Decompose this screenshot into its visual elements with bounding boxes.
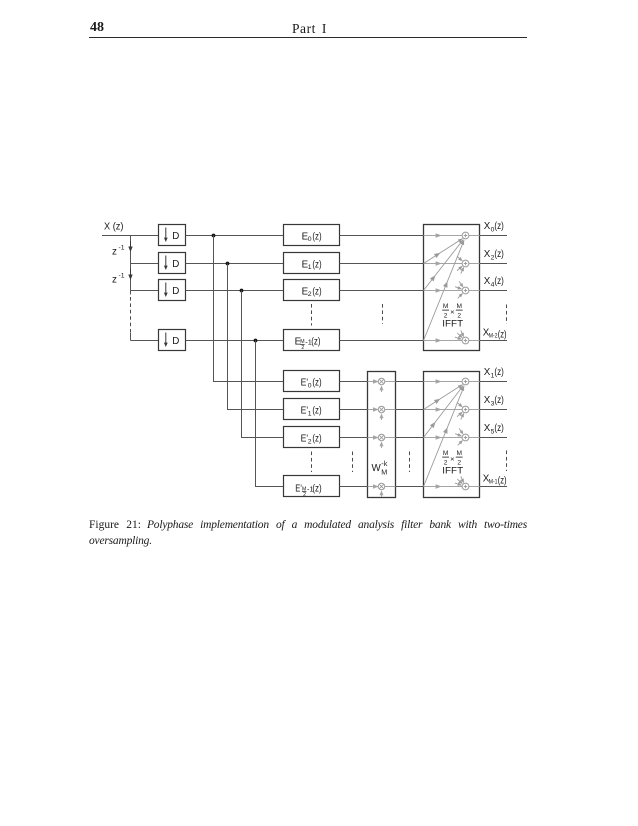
wire output X5 <box>480 437 508 439</box>
U2 IFFT label <box>442 466 463 476</box>
dashed continuation between E2 and EM21 <box>311 304 313 326</box>
U1 internal row line 1 <box>424 233 480 238</box>
W coefficient label WM-k <box>372 459 388 476</box>
node junction tap4 <box>254 339 258 343</box>
svg-text:W: W <box>372 463 382 474</box>
dashed continuation wires E' to W <box>352 452 354 473</box>
filter E'2 <box>284 427 340 448</box>
node junction tap3 <box>240 289 244 293</box>
svg-text:(z): (z) <box>498 475 507 486</box>
svg-text:(z): (z) <box>312 231 321 242</box>
svg-text:(z): (z) <box>311 336 320 347</box>
svg-text:X (z): X (z) <box>104 221 124 232</box>
wire filter E' row2 to W bank <box>340 409 368 411</box>
svg-text:×: × <box>450 455 454 464</box>
wire downsampler D4 to filter <box>186 340 284 342</box>
wire filter E' row1 to W bank <box>340 381 368 383</box>
svg-text:(z): (z) <box>494 395 503 406</box>
U1 internal row line 4 <box>424 338 480 343</box>
svg-text:(z): (z) <box>494 221 503 232</box>
wire filter E' row4 to W bank <box>340 486 368 488</box>
wire tap2 to lower filter <box>228 264 284 410</box>
svg-text:-1: -1 <box>119 272 125 279</box>
svg-text:2: 2 <box>308 438 312 445</box>
svg-text:IFFT: IFFT <box>442 319 463 329</box>
node output label XM-1(z) <box>483 473 507 486</box>
svg-text:D: D <box>172 259 179 270</box>
wire output X1 <box>480 381 508 383</box>
node junction tap2 <box>226 262 230 266</box>
multiplier row2 internal wires <box>368 407 396 420</box>
svg-text:D: D <box>172 336 179 347</box>
svg-text:1: 1 <box>308 410 312 417</box>
multiplier node row3 <box>378 434 385 441</box>
filter EM21 with label E M/2-1 (z) <box>284 330 340 351</box>
U2 burst arrows into adder row3 <box>455 428 463 445</box>
svg-text:M: M <box>443 303 449 310</box>
svg-text:D: D <box>172 231 179 242</box>
svg-text:D: D <box>172 286 179 297</box>
U2 burst arrows into adder row2 <box>457 402 464 419</box>
svg-text:0: 0 <box>308 382 312 389</box>
wire filter row4 to IFFT1 <box>340 340 424 342</box>
U1 burst arrows into adder row4 <box>455 330 464 339</box>
delay z-1 second <box>112 269 133 285</box>
adder node U2 row4 <box>462 483 469 490</box>
adder node U1 row4 <box>462 337 469 344</box>
wire tap3 to lower filter <box>242 291 284 438</box>
wire delay to downsampler row3 <box>131 290 159 292</box>
filter E'1 <box>284 399 340 420</box>
dashed continuation outputs bottom bank <box>506 451 508 472</box>
wire W bank to IFFT2 row4 <box>396 486 424 488</box>
svg-text:M: M <box>456 303 462 310</box>
svg-text:z: z <box>112 274 117 285</box>
multiplier node row4 <box>378 483 385 490</box>
wire delay to downsampler row2 <box>131 263 159 265</box>
svg-text:(z): (z) <box>494 249 503 260</box>
IFFT block U1 <box>424 225 480 351</box>
svg-text:(z): (z) <box>312 484 321 495</box>
IFFT block U2 <box>424 372 480 498</box>
node output label X0(z) <box>484 221 504 234</box>
node output label X2(z) <box>484 249 504 262</box>
U1 butterfly diagonal from row3 <box>424 240 464 291</box>
dashed continuation between E'2 and E'M21 <box>311 452 313 473</box>
wire W bank to IFFT2 row1 <box>396 381 424 383</box>
wire tap4 to lower filter <box>256 341 284 487</box>
U1 internal row line 2 <box>424 261 480 266</box>
svg-text:(z): (z) <box>312 259 321 270</box>
svg-text:1: 1 <box>308 264 312 271</box>
adder node U1 row3 <box>462 287 469 294</box>
svg-text:(z): (z) <box>494 367 503 378</box>
dashed continuation wires W to IFFT2 <box>409 452 411 473</box>
svg-text:(z): (z) <box>312 286 321 297</box>
adder node U1 row2 <box>462 260 469 267</box>
dashed continuation wires E to IFFT1 <box>382 304 384 324</box>
svg-text:×: × <box>450 308 454 317</box>
downsampler D1 <box>159 225 186 246</box>
U2 burst arrows into adder row4 <box>455 476 464 485</box>
U1 butterfly diagonal from row2 <box>424 239 463 264</box>
U2 size label M/2 x M/2 <box>442 450 462 466</box>
wire output X2 <box>480 263 508 265</box>
wire output XM-2 <box>480 340 508 342</box>
svg-text:(z): (z) <box>312 378 321 389</box>
wire delay chain vertical <box>130 236 132 341</box>
filter E1 <box>284 253 340 274</box>
svg-text:M: M <box>456 450 462 457</box>
U2 butterfly diagonal from row4 <box>424 386 465 486</box>
svg-text:-1: -1 <box>119 244 125 251</box>
svg-text:(z): (z) <box>312 406 321 417</box>
wire downsampler D1 to filter <box>186 235 284 237</box>
node output label X4(z) <box>484 276 504 289</box>
svg-text:(z): (z) <box>498 329 507 340</box>
wire output X4 <box>480 290 508 292</box>
svg-text:E': E' <box>295 484 302 495</box>
node output label X5(z) <box>484 423 504 436</box>
wire W bank to IFFT2 row3 <box>396 437 424 439</box>
wire input <box>102 235 159 237</box>
multiplier row1 internal wires <box>368 379 396 392</box>
U1 burst arrows into adder row3 <box>455 281 463 298</box>
node output label X1(z) <box>484 367 504 380</box>
filter E'0 <box>284 371 340 392</box>
node output label XM-2(z) <box>483 327 507 340</box>
node junction tap1 <box>212 234 216 238</box>
multiplier node row2 <box>378 406 385 413</box>
svg-text:-k: -k <box>381 459 387 468</box>
downsampler D3 <box>159 280 186 301</box>
U2 internal row line 3 <box>424 435 480 440</box>
U2 internal row line 2 <box>424 407 480 412</box>
wire output X3 <box>480 409 508 411</box>
wire output X0 <box>480 235 508 237</box>
downsampler D4 <box>159 330 186 351</box>
filter E2 <box>284 280 340 301</box>
wire downsampler D3 to filter <box>186 290 284 292</box>
svg-text:z: z <box>112 246 117 257</box>
svg-text:M: M <box>381 467 387 476</box>
wire filter row1 to IFFT1 <box>340 235 424 237</box>
adder node U2 row1 <box>462 378 469 385</box>
U2 internal row line 4 <box>424 484 480 489</box>
adder node U1 row1 <box>462 232 469 239</box>
multiplier node row1 <box>378 378 385 385</box>
svg-text:2: 2 <box>301 345 304 351</box>
svg-text:(z): (z) <box>312 434 321 445</box>
svg-text:2: 2 <box>303 492 306 498</box>
downsampler D2 <box>159 253 186 274</box>
filter E'M21 with label E' M/2-1 (z) <box>284 476 340 499</box>
wire filter row2 to IFFT1 <box>340 263 424 265</box>
delay z-1 first <box>112 241 133 257</box>
U1 size label M/2 x M/2 <box>442 303 462 319</box>
wire tap1 to lower filter <box>214 236 284 382</box>
U1 internal row line 3 <box>424 288 480 293</box>
svg-text:(z): (z) <box>494 423 503 434</box>
wire W bank to IFFT2 row2 <box>396 409 424 411</box>
filter E0 <box>284 225 340 246</box>
multiplier row4 internal wires <box>368 484 396 497</box>
adder node U2 row2 <box>462 406 469 413</box>
multiplier row3 internal wires <box>368 435 396 448</box>
U2 internal row line 1 <box>424 379 480 384</box>
U2 butterfly diagonal from row3 <box>424 386 464 438</box>
svg-text:M-2: M-2 <box>489 333 498 340</box>
node output label X3(z) <box>484 395 504 408</box>
multiplier bank W box <box>368 372 396 498</box>
svg-text:M: M <box>443 450 449 457</box>
U1 IFFT label <box>442 319 463 329</box>
svg-text:2: 2 <box>308 291 312 298</box>
svg-text:IFFT: IFFT <box>442 466 463 476</box>
svg-text:(z): (z) <box>494 276 503 287</box>
wire output XM-1 <box>480 486 508 488</box>
node input X(z) label <box>104 221 124 232</box>
svg-text:0: 0 <box>308 236 312 243</box>
adder node U2 row3 <box>462 434 469 441</box>
dashed continuation outputs top bank <box>506 305 508 325</box>
U2 butterfly diagonal from row2 <box>424 385 463 410</box>
wire downsampler D2 to filter <box>186 263 284 265</box>
U1 burst arrows into adder row2 <box>457 256 464 273</box>
svg-text:M-1: M-1 <box>489 479 498 486</box>
U1 butterfly diagonal from row4 <box>424 240 465 340</box>
wire filter E' row3 to W bank <box>340 437 368 439</box>
wire delay to downsampler row4 <box>131 340 159 342</box>
wire filter row3 to IFFT1 <box>340 290 424 292</box>
